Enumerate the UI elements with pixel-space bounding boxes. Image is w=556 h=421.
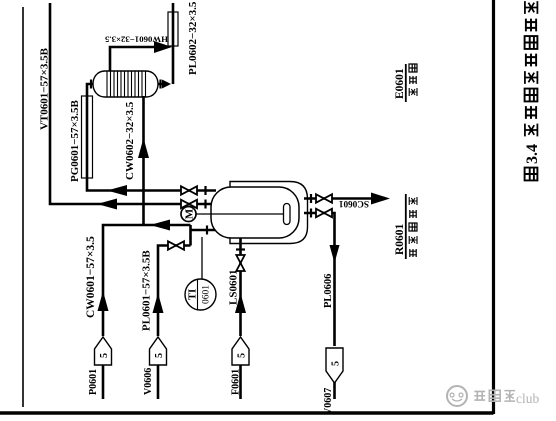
arrow right PL0601 xyxy=(153,293,164,313)
equipment name fanying zhengliufu xyxy=(409,197,417,257)
svg-text:5: 5 xyxy=(331,361,342,366)
svg-text:HW0601−32×3.5: HW0601−32×3.5 xyxy=(104,35,168,45)
insulated pipe capsule PG0601 xyxy=(82,96,93,178)
wire HW0601 from condenser shell xyxy=(110,47,166,71)
svg-text:LS0601: LS0601 xyxy=(228,270,240,305)
svg-text:5: 5 xyxy=(154,353,165,358)
svg-text:E0601: E0601 xyxy=(394,68,406,99)
arrow right CW0601 xyxy=(98,291,109,311)
svg-text:5: 5 xyxy=(99,353,110,358)
vessel R0601 shell xyxy=(211,187,299,238)
vessel jacket xyxy=(230,182,308,244)
pentagon V0607 outgoing xyxy=(326,348,343,383)
agitator shaft xyxy=(196,213,285,215)
border left xyxy=(0,411,494,414)
flange condenser bottom xyxy=(159,80,161,89)
arrow down HW0601 xyxy=(154,41,172,53)
pentagon F0601 xyxy=(232,337,249,365)
svg-text:PL0601−57×3.5B: PL0601−57×3.5B xyxy=(141,250,153,331)
wire V0607 stub xyxy=(333,381,336,399)
arrow right CW0602 xyxy=(138,138,149,158)
wire manifold header xyxy=(189,225,192,246)
flange riser B xyxy=(206,226,208,235)
motor M xyxy=(181,207,196,222)
valve on PL0601 drop xyxy=(168,241,184,249)
svg-text:P0601: P0601 xyxy=(88,369,99,395)
flange SC0601 xyxy=(310,194,312,203)
arrow down SC0601 terminal xyxy=(371,193,390,205)
watermark logo xyxy=(447,386,467,406)
svg-text:SC0601: SC0601 xyxy=(338,199,369,209)
equipment name lengningqi xyxy=(409,64,417,96)
wire LS0601 feed from F0601 xyxy=(239,236,242,399)
agitator paddle xyxy=(284,204,291,225)
flange VT riser xyxy=(204,200,206,209)
valve on LS0601 line xyxy=(236,255,244,271)
wire PG0601 riser from vessel to condenser top xyxy=(87,84,216,191)
pentagon P0601 xyxy=(95,337,112,365)
wire CW0601 feed from P0601 xyxy=(103,225,191,399)
valve on PG riser xyxy=(181,186,197,194)
wire SC0601 bottom discharge xyxy=(304,197,373,200)
arrow up into CW tee xyxy=(150,220,170,231)
svg-text:F0601: F0601 xyxy=(231,369,242,395)
flange condenser top xyxy=(90,80,92,89)
insulated pipe capsule PL0602 xyxy=(168,12,178,46)
svg-text:3.4: 3.4 xyxy=(524,144,541,164)
svg-text:M: M xyxy=(184,208,196,219)
caption figure 3.4 xyxy=(525,168,538,181)
svg-text:CW0602−32×3.5: CW0602−32×3.5 xyxy=(124,101,136,180)
border top xyxy=(22,7,24,407)
svg-text:CW0601−57×3.5: CW0601−57×3.5 xyxy=(85,236,97,318)
border bottom xyxy=(492,0,495,414)
flange PL0606 xyxy=(310,209,312,218)
svg-text:PG0601−57×3.5B: PG0601−57×3.5B xyxy=(69,99,81,182)
arrow up PG riser xyxy=(107,185,127,196)
wire feed riser into vessel head xyxy=(191,229,217,232)
flange LS0601 xyxy=(236,248,245,250)
svg-text:PL0602−32×3.5: PL0602−32×3.5 xyxy=(187,1,199,75)
instrument TI0601 bubble xyxy=(185,279,216,310)
arrow left PL0606 xyxy=(330,245,340,263)
svg-text:R0601: R0601 xyxy=(394,223,406,255)
valve on SC0601 xyxy=(316,194,332,202)
svg-text:VT0601−57×3.5B: VT0601−57×3.5B xyxy=(39,47,51,130)
wire PL0602 condensate header xyxy=(172,3,175,84)
svg-text:V0607: V0607 xyxy=(323,388,334,415)
svg-text:5: 5 xyxy=(237,353,248,358)
wire PL0606 bottom outlet to V0607 xyxy=(304,213,335,346)
svg-text:0601: 0601 xyxy=(202,285,212,304)
arrow right LS0601 xyxy=(235,293,246,313)
wire PL0601 feed from V0606 xyxy=(158,246,191,400)
wire condenser bottom outlet stub xyxy=(152,83,162,86)
flange PG riser xyxy=(204,186,206,195)
svg-text:TI: TI xyxy=(188,289,199,300)
watermark text xyxy=(474,390,515,401)
condenser tube hatch xyxy=(107,71,146,97)
arrow down condenser outlet xyxy=(162,80,171,89)
condenser E0601 xyxy=(93,71,158,97)
valve on PL0606 xyxy=(316,209,332,217)
valve on VT riser xyxy=(181,200,197,208)
svg-text:V0606: V0606 xyxy=(143,368,154,395)
instrument line TI xyxy=(201,237,203,279)
svg-text:club: club xyxy=(516,391,539,406)
wire VT0601 header and riser to vessel xyxy=(50,3,216,204)
wire CW0602 to condenser xyxy=(142,96,145,225)
svg-text:PL0606: PL0606 xyxy=(323,274,334,308)
pentagon V0606 xyxy=(150,337,167,365)
arrow up VT riser xyxy=(97,199,117,210)
